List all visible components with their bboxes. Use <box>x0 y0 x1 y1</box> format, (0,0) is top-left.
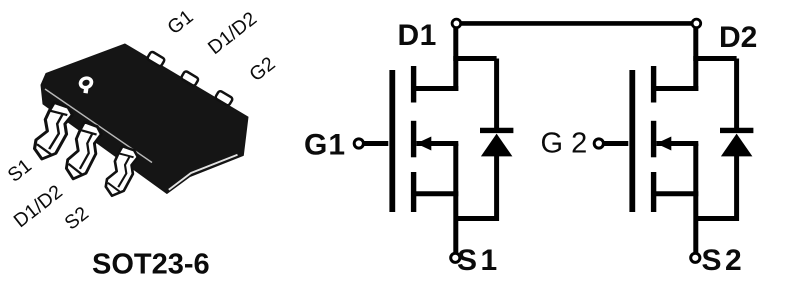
top wire joining D1 and D2 <box>461 21 693 26</box>
svg-text:S1: S1 <box>4 155 36 187</box>
svg-text:SOT23-6: SOT23-6 <box>92 249 210 281</box>
gull-wing lead pin D1/D2 <box>66 122 101 179</box>
svg-text:S1: S1 <box>457 244 501 277</box>
transistor Q1 (left MOSFET with body diode) <box>354 19 513 262</box>
svg-text:S2: S2 <box>61 202 93 234</box>
gull-wing lead pin S1 <box>35 103 73 159</box>
svg-text:G1: G1 <box>304 129 346 162</box>
package mold edge highlight (bottom-right) <box>169 155 238 190</box>
package mold edge highlight (front-left) <box>45 89 152 163</box>
svg-text:G1: G1 <box>163 6 197 39</box>
svg-text:G 2: G 2 <box>541 128 588 160</box>
package body (molded plastic, 3D view) <box>41 44 248 194</box>
top lead tab pin G2 <box>215 90 233 106</box>
top lead tab pin D1/D2 <box>181 71 199 87</box>
gull-wing lead pin S2 <box>106 146 138 196</box>
transistor Q2 (right MOSFET with body diode) <box>594 19 753 262</box>
svg-text:S2: S2 <box>702 244 746 277</box>
svg-text:D1/D2: D1/D2 <box>204 8 261 59</box>
pin 1 index marker <box>77 74 95 93</box>
svg-text:D2: D2 <box>719 21 757 54</box>
top lead tab pin G1 <box>147 51 165 67</box>
svg-text:D1: D1 <box>398 19 437 52</box>
svg-text:G2: G2 <box>245 53 279 86</box>
svg-text:D1/D2: D1/D2 <box>10 181 67 232</box>
